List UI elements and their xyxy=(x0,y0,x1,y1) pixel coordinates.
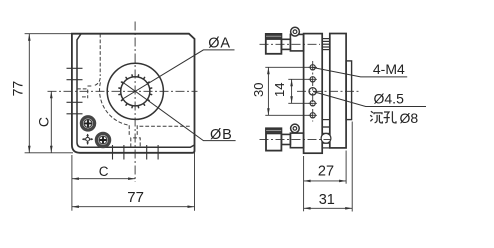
svg-text:77: 77 xyxy=(127,189,144,206)
arrowheads xyxy=(28,34,352,210)
third thin plate xyxy=(346,61,352,120)
svg-text:14: 14 xyxy=(272,83,287,97)
knob K2 front xyxy=(96,133,109,146)
dim 77 bottom xyxy=(72,206,195,208)
svg-text:Ø8: Ø8 xyxy=(400,110,419,126)
dim 30 xyxy=(265,67,312,115)
svg-text:C: C xyxy=(36,117,52,127)
front plate inner bevel line xyxy=(77,34,194,147)
hole column xyxy=(308,65,317,118)
dim 77 left xyxy=(25,34,73,153)
main plate side xyxy=(304,34,323,154)
leader 4-M4 xyxy=(313,68,407,77)
top stud boss xyxy=(322,39,330,50)
label counterbore dia 8 (chen kong) xyxy=(370,111,396,123)
hidden pocket dashed lines xyxy=(77,34,192,148)
thread tick marks xyxy=(119,75,152,108)
leader A xyxy=(122,50,235,100)
leader B xyxy=(122,82,236,141)
dim C bottom xyxy=(72,153,195,211)
svg-text:ØA: ØA xyxy=(208,35,231,51)
svg-text:30: 30 xyxy=(251,83,266,97)
vertical center line xyxy=(134,22,136,183)
side center line xyxy=(297,90,360,92)
svg-text:ØB: ØB xyxy=(210,127,233,143)
dim 14 xyxy=(288,79,312,103)
svg-text:77: 77 xyxy=(9,81,25,97)
dim C left xyxy=(50,91,52,153)
second plate side xyxy=(330,34,346,148)
dim 27 xyxy=(304,151,347,212)
leader counterbore xyxy=(313,92,426,107)
bottom adjuster stack xyxy=(321,120,331,148)
bottom edge ticks xyxy=(113,145,159,160)
svg-text:4-M4: 4-M4 xyxy=(373,61,405,77)
center hole outer circle xyxy=(107,63,163,119)
cross adjuster symbol xyxy=(82,134,93,145)
hidden arc around circle xyxy=(100,82,130,125)
threaded inner circle xyxy=(121,77,150,106)
svg-text:31: 31 xyxy=(319,192,335,208)
bottom knob assembly xyxy=(260,124,332,151)
top knob assembly xyxy=(260,27,321,54)
front view plate outline xyxy=(72,34,195,153)
svg-text:Ø4.5: Ø4.5 xyxy=(374,91,405,107)
svg-text:27: 27 xyxy=(318,164,334,180)
hole column center line xyxy=(312,61,314,122)
svg-text:C: C xyxy=(99,164,109,179)
horizontal center line xyxy=(48,90,198,92)
left edge ticks xyxy=(67,68,83,114)
knob K1 front xyxy=(81,117,94,130)
dim 31 xyxy=(304,122,353,212)
